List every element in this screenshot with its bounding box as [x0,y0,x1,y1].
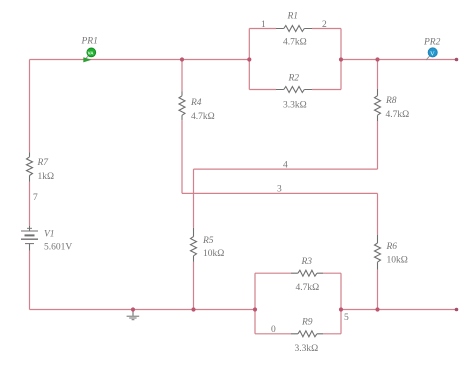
svg-text:4.7kΩ: 4.7kΩ [283,38,307,48]
wire net 3 horizontal [182,192,378,194]
svg-text:5.601V: 5.601V [44,243,72,253]
resistor R5 10k vertical [191,228,225,262]
wire R3 top rail stubs [255,272,291,274]
junction bottom-rail/R6 [375,307,379,311]
wire R1/R2 block left edge [248,29,250,90]
wire net 4 horizontal [194,168,378,170]
svg-text:V: V [430,50,435,57]
resistor R4 4.7k vertical [179,91,215,122]
wire bottom rail right of R3/R9 block [341,309,457,311]
svg-text:10kΩ: 10kΩ [387,256,408,266]
wire below R6 to bottom rail [377,270,379,310]
probe PR2 (blue voltage probe) [423,38,441,61]
svg-text:4.7kΩ: 4.7kΩ [296,283,320,293]
voltage source V1 5.601V battery [21,226,72,253]
svg-text:4: 4 [283,161,288,171]
wire R2 bottom rail stubs [249,89,276,91]
junction top-rail/R4 [180,57,184,61]
svg-text:R1: R1 [287,12,299,22]
svg-text:VA: VA [88,51,95,56]
junction block2 right [339,307,343,311]
terminal dot bottom right [455,308,459,312]
wire left branch (top section above R7) [29,60,31,153]
wire R1 top rail stubs [249,28,276,30]
ground symbol [127,310,140,320]
svg-text:3.3kΩ: 3.3kΩ [295,344,319,354]
wire R4 column upper [181,60,183,92]
svg-text:0: 0 [271,325,276,335]
svg-text:PR2: PR2 [423,38,441,48]
junction block1 right [339,57,343,61]
svg-text:R2: R2 [288,74,300,84]
resistor R8 4.7k vertical [375,89,410,121]
wire bottom rail left [30,309,256,311]
wire R8 column upper [377,60,379,90]
wire R3/R9 block left edge [254,273,256,334]
svg-text:1: 1 [261,20,266,30]
svg-text:2: 2 [322,20,327,30]
wire left branch between R7 and V1 [29,182,31,226]
wire R9 bottom rail stubs [255,333,291,335]
wire left branch below V1 [29,251,31,310]
junction block1 left [247,57,251,61]
resistor R3 4.7k horizontal [291,257,323,293]
junction block2 left [253,307,257,311]
svg-text:V1: V1 [44,230,55,240]
svg-text:10kΩ: 10kΩ [203,249,224,259]
resistor R6 10k vertical [375,235,408,270]
wire R8 column lower to net 4 [377,121,379,169]
svg-text:R9: R9 [301,318,313,328]
svg-text:PR1: PR1 [81,37,98,47]
svg-text:3.3kΩ: 3.3kΩ [283,101,307,111]
svg-text:1kΩ: 1kΩ [38,172,55,182]
wire R1/R2 block right edge [340,29,342,90]
wire middle rail right of R1/R2 block to PR2 terminal [341,59,457,61]
svg-text:5: 5 [344,313,349,323]
wire below R5 to bottom rail [193,262,195,310]
wire R4 column lower to net 3 [181,120,183,193]
resistor R7 1k vertical [27,152,55,182]
resistor R1 4.7k horizontal [276,12,312,48]
wire net 3 down to R6 [377,193,379,234]
wire R3/R9 block right edge [340,273,342,334]
wire net 4 down to R5 [193,169,195,228]
svg-text:7: 7 [33,193,38,203]
terminal dot right of PR2 [455,58,459,62]
probe PR1 (green current probe) [81,37,98,63]
svg-text:R6: R6 [386,242,398,252]
wire top rail from V1 branch to R1/R2 block [30,59,250,61]
svg-text:R5: R5 [202,236,214,246]
junction top-rail/R8 [375,57,379,61]
svg-text:R7: R7 [37,158,50,168]
svg-text:R3: R3 [301,257,313,267]
resistor R9 3.3k horizontal [291,318,323,355]
svg-text:R8: R8 [385,96,397,106]
junction bottom-rail/ground [131,307,135,311]
svg-text:R4: R4 [190,98,202,108]
svg-text:4.7kΩ: 4.7kΩ [191,112,215,122]
resistor R2 3.3k horizontal [276,74,312,111]
svg-text:3: 3 [277,185,282,195]
svg-text:4.7kΩ: 4.7kΩ [386,110,410,120]
junction bottom-rail/R5 [191,307,195,311]
